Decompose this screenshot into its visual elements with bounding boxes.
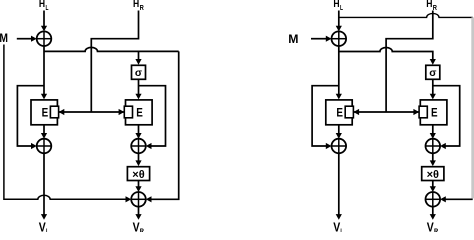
wire M into XOR1 (right diagram) [311, 36, 332, 42]
wire E left down into XOR2 [41, 125, 47, 139]
svg-text:H: H [39, 0, 45, 10]
wire H_L into XOR1 (right diagram) [336, 11, 342, 32]
svg-text:L: L [46, 3, 49, 12]
wire sigma wrap-around into XOR3 [139, 86, 166, 149]
svg-text:L: L [340, 227, 343, 232]
XOR adder J2 (E out + E in) [37, 139, 52, 154]
block E left encoder [31, 100, 59, 125]
svg-text:R: R [433, 3, 438, 12]
wire E right down into XOR3 (right diagram) [430, 125, 436, 139]
svg-text:H: H [333, 0, 339, 10]
wire key line into E ports [58, 109, 126, 115]
block xtheta multiplier [127, 167, 149, 181]
wire key line into E ports (right diagram) [352, 109, 420, 115]
svg-text:E: E [336, 108, 343, 120]
XOR adder J3 right [426, 139, 441, 154]
svg-text:H: H [133, 0, 139, 10]
XOR adder J1 (H_L + M) [37, 31, 52, 46]
svg-text:R: R [140, 3, 145, 12]
block xtheta multiplier (right diagram) [422, 167, 444, 181]
wire XOR1 down into E left (right diagram) [336, 46, 342, 99]
svg-text:E: E [136, 108, 143, 120]
block E right encoder [124, 100, 152, 125]
wire XOR4 down to V_R output [135, 207, 141, 220]
svg-text:R: R [434, 227, 439, 232]
svg-text:σ: σ [135, 67, 142, 79]
wire H_R down and left to key line (right diagram) [386, 11, 433, 113]
wire sigma down into E right [135, 79, 141, 99]
wire xtheta down into XOR4 (right diagram) [430, 181, 436, 193]
wire XOR1 branch down right side into XOR4 [146, 51, 179, 202]
block sigma [132, 65, 146, 79]
wire H_L branch right with hop over H_R line [339, 13, 473, 17]
wire right edge down (grey) [471, 17, 474, 198]
wire XOR1 branch right with hop over key line [44, 47, 179, 51]
wire E left down into XOR2 (right diagram) [336, 125, 342, 139]
svg-text:E: E [431, 108, 438, 120]
wire XOR4 down to V_R output (right diagram) [430, 207, 436, 220]
XOR adder J2 right [332, 139, 347, 154]
XOR adder J4 (output V_R) [131, 192, 146, 207]
svg-text:M: M [0, 31, 8, 45]
wire H_R down and left to key line [91, 11, 138, 113]
wire XOR2 down to V_L output (right diagram) [336, 153, 342, 220]
svg-text:H: H [426, 0, 432, 10]
wire E right down into XOR3 [135, 125, 141, 139]
wire XOR1 down into E left [41, 46, 47, 99]
wire sigma wrap-around into XOR3 (right diagram) [433, 86, 460, 149]
wire H_L into XOR1 [41, 11, 47, 32]
wire XOR2 down to V_L output [41, 153, 47, 220]
wire XOR1 branch right with hop, into sigma [339, 48, 436, 65]
wire M into XOR1 [17, 36, 37, 42]
wire XOR1 wrap-around into XOR2 [17, 86, 44, 149]
svg-text:×θ: ×θ [132, 169, 144, 181]
wire xtheta down into XOR4 [135, 181, 141, 193]
wire branch down into sigma [135, 51, 141, 64]
svg-text:×θ: ×θ [427, 169, 439, 181]
block E left encoder (right diagram) [326, 100, 354, 125]
XOR adder J1 right (H_L + M) [332, 31, 347, 46]
svg-text:L: L [340, 3, 343, 12]
svg-text:E: E [42, 108, 49, 120]
XOR adder J3 (E out + sigma) [131, 139, 146, 154]
block sigma (right diagram) [426, 65, 440, 79]
wire sigma down into E right (right diagram) [430, 79, 436, 99]
XOR adder J4 right (output V_R) [426, 192, 441, 207]
svg-text:σ: σ [429, 67, 436, 79]
svg-text:M: M [288, 32, 298, 46]
wire XOR1 wrap-around into XOR2 (right diagram) [312, 86, 339, 149]
wire XOR3 down into xtheta [135, 153, 141, 166]
svg-text:R: R [140, 227, 145, 232]
wire right edge into XOR4 (right diagram) [440, 196, 473, 202]
wire M feed-forward down left edge into XOR4, hop over V_L line [4, 45, 131, 203]
wire XOR3 down into xtheta (right diagram) [430, 153, 436, 166]
block E right encoder (right diagram) [419, 100, 447, 125]
svg-text:L: L [46, 227, 49, 232]
